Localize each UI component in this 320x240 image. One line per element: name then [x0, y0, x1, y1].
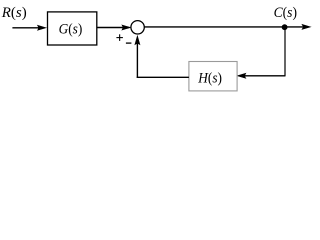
wire summing junction to C(s) output arrow	[144, 25, 310, 30]
wire G(s) to summing junction	[97, 25, 131, 30]
wire H(s) output to left	[137, 76, 189, 78]
svg-text:R(s): R(s)	[1, 5, 27, 21]
wire feedback vertical from takeoff dot	[284, 28, 286, 76]
block H1	[189, 62, 237, 91]
label plus sign	[116, 34, 123, 41]
wire input arrow into G(s)	[12, 25, 46, 30]
block G1	[48, 12, 97, 45]
node takeoff point dot	[282, 24, 288, 30]
wire feedback up into summing junction	[135, 36, 140, 78]
svg-text:H(s): H(s)	[197, 70, 222, 86]
wire feedback into H(s) with arrow	[237, 73, 285, 78]
svg-text:C(s): C(s)	[274, 5, 298, 21]
svg-text:G(s): G(s)	[59, 22, 83, 38]
summing junction S1	[131, 21, 144, 34]
label minus sign	[126, 42, 131, 44]
